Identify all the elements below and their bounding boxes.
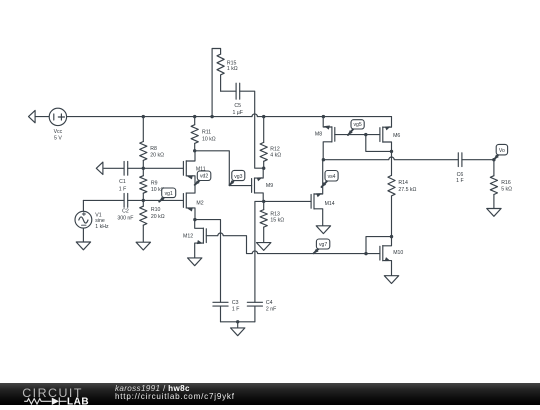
svg-text:C2: C2 — [122, 208, 129, 214]
node vg1 — [159, 188, 176, 202]
resistor R16 5 kOhm — [490, 160, 512, 209]
voltage source V1 sine 1 kHz — [75, 200, 109, 230]
node vg5 — [348, 120, 364, 135]
svg-text:vd2: vd2 — [200, 174, 208, 180]
svg-text:R14: R14 — [398, 180, 408, 186]
resistor R12 4 kOhm — [260, 117, 281, 169]
wire gate tie to M6 drain — [366, 135, 392, 152]
svg-text:vg7: vg7 — [319, 242, 327, 248]
svg-text:27.5 kΩ: 27.5 kΩ — [398, 187, 416, 193]
wire M12 gate run — [206, 233, 366, 254]
svg-text:4 kΩ: 4 kΩ — [270, 153, 281, 159]
svg-text:1 kΩ: 1 kΩ — [227, 66, 238, 72]
ground under R10 — [136, 242, 150, 250]
voltage source Vcc V(dc) 5 V — [49, 108, 66, 141]
wire R11 node to vg3 drop — [195, 151, 252, 186]
wire R15 top loop — [212, 49, 221, 117]
wire V1 to C2 — [83, 199, 124, 201]
junction R8-R9-C1 — [142, 167, 145, 170]
svg-text:C1: C1 — [119, 179, 126, 185]
junction output node — [322, 158, 325, 161]
CircuitLab logo — [0, 383, 95, 410]
junction M9 source node — [262, 200, 265, 203]
credits text — [115, 385, 235, 401]
wire C5 to R12 bottom node — [240, 91, 264, 168]
junction rail-R11 — [193, 115, 196, 118]
capacitor C1 1 F — [119, 161, 128, 192]
junction M6 drain node — [390, 150, 393, 153]
ground under C3-C4 — [231, 322, 245, 336]
wire output to C6 — [323, 157, 458, 160]
wire C3-C4 common — [221, 321, 255, 323]
transistor M8 — [315, 117, 335, 160]
wire C6 to Vo — [462, 159, 494, 161]
wire M2 source to C3 — [195, 220, 221, 303]
svg-text:C6: C6 — [457, 172, 464, 178]
svg-text:R10: R10 — [151, 207, 161, 213]
transistor M10 — [380, 237, 404, 276]
node vd2 — [195, 171, 211, 185]
svg-text:Vcc: Vcc — [54, 129, 63, 135]
svg-text:M8: M8 — [315, 132, 322, 138]
junction C3-C4 ground — [236, 320, 239, 323]
svg-text:C3: C3 — [232, 300, 239, 306]
svg-text:1 µF: 1 µF — [232, 110, 242, 116]
capacitor C4 2 nF — [247, 300, 276, 322]
junction R11-M11 — [193, 149, 196, 152]
svg-text:C5: C5 — [234, 103, 241, 109]
svg-text:20 kΩ: 20 kΩ — [151, 214, 165, 220]
wire Vdd rail — [67, 114, 392, 117]
capacitor C3 1 F — [213, 300, 240, 322]
capacitor C5 1 uF — [232, 83, 242, 116]
svg-text:1 kHz: 1 kHz — [95, 224, 109, 230]
junction M2 source node — [193, 218, 196, 221]
svg-text:R8: R8 — [150, 146, 157, 152]
junction R14-M10 — [390, 235, 393, 238]
svg-text:R11: R11 — [202, 129, 211, 135]
svg-text:M12: M12 — [183, 234, 193, 240]
transistor M9 — [252, 168, 274, 201]
svg-text:M10: M10 — [393, 250, 403, 256]
resistor R15 1 kOhm — [217, 54, 238, 91]
svg-text:M14: M14 — [325, 201, 335, 207]
net flag C1 input — [96, 162, 124, 174]
svg-text:C4: C4 — [266, 300, 273, 306]
node vg7 — [314, 239, 330, 253]
svg-text:vg3: vg3 — [234, 174, 242, 180]
svg-text:5 kΩ: 5 kΩ — [501, 187, 512, 193]
resistor R9 10 kOhm — [140, 168, 165, 200]
junction gate tie — [364, 133, 367, 136]
resistor R8 20 kOhm — [140, 117, 164, 169]
junction rail-R15 — [210, 115, 213, 118]
svg-text:M2: M2 — [196, 201, 203, 207]
svg-text:vs4: vs4 — [328, 174, 336, 180]
svg-text:M6: M6 — [393, 133, 400, 139]
node Vo — [494, 144, 508, 159]
node vg3 — [230, 170, 245, 185]
transistor M6 — [380, 117, 401, 152]
svg-text:1 F: 1 F — [119, 187, 127, 193]
resistor R13 15 kOhm — [260, 201, 284, 242]
ground under V1 — [76, 228, 90, 250]
svg-text:vg1: vg1 — [165, 191, 173, 197]
junction Vo node — [492, 158, 495, 161]
svg-text:Vo: Vo — [499, 148, 505, 154]
capacitor C6 1 F — [456, 153, 464, 184]
junction vg7 wire-M10 gate — [364, 252, 367, 255]
wire M10 gate loop — [366, 237, 392, 254]
wire M8-M6 gates — [335, 134, 380, 136]
resistor R11 10 kOhm — [191, 117, 216, 151]
ground under R13 — [257, 243, 271, 251]
svg-text:R16: R16 — [501, 180, 511, 186]
transistor M12 — [183, 220, 206, 258]
svg-text:R9: R9 — [151, 180, 158, 186]
wire M9 source to C4 — [255, 201, 264, 302]
junction R9-R10-C2 — [142, 199, 145, 202]
junction R12-M9-C5 — [262, 167, 265, 170]
node vs4 — [322, 171, 339, 188]
ground under M14 — [316, 226, 330, 234]
net flag Vcc — [29, 110, 50, 122]
capacitor C2 300 nF — [117, 194, 133, 222]
wire C2 to M2 gate — [128, 199, 184, 201]
transistor M2 — [183, 185, 203, 220]
ground under M10 — [384, 276, 398, 284]
resistor R14 27.5 kOhm — [388, 151, 417, 236]
svg-text:vg5: vg5 — [353, 122, 361, 128]
wire to M10 gate — [366, 253, 380, 255]
wire R15-C5 — [221, 90, 237, 92]
transistor M11 — [183, 151, 205, 185]
ground under M12 — [188, 258, 202, 266]
svg-text:1 F: 1 F — [456, 178, 464, 184]
svg-text:LAB: LAB — [67, 396, 89, 405]
svg-text:300 nF: 300 nF — [117, 216, 133, 222]
junction rail-R12 — [262, 115, 265, 118]
resistor R10 20 kOhm — [140, 200, 165, 242]
junction rail-R8 — [142, 115, 145, 118]
svg-text:5 V: 5 V — [54, 135, 62, 141]
transistor M14 — [311, 160, 335, 226]
ground under R16 — [487, 209, 501, 217]
svg-text:10 kΩ: 10 kΩ — [202, 137, 216, 143]
wire M9 source to M14 gate — [264, 200, 311, 202]
svg-text:20 kΩ: 20 kΩ — [150, 153, 164, 159]
svg-text:M9: M9 — [266, 183, 273, 189]
junction rail-M8 — [322, 115, 325, 118]
wire C1 to M11 gate — [128, 167, 184, 169]
svg-text:2 nF: 2 nF — [266, 307, 276, 313]
svg-text:15 kΩ: 15 kΩ — [270, 217, 284, 223]
svg-text:1 F: 1 F — [232, 307, 240, 313]
